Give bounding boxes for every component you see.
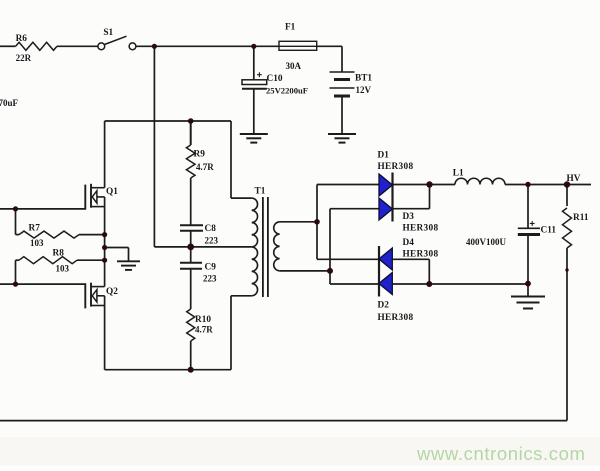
svg-text:R6: R6 xyxy=(16,34,28,44)
svg-text:T1: T1 xyxy=(255,187,266,197)
svg-text:4.7R: 4.7R xyxy=(195,325,213,335)
svg-text:R8: R8 xyxy=(53,249,65,259)
svg-text:R10: R10 xyxy=(195,315,211,325)
svg-text:C8: C8 xyxy=(205,224,217,234)
svg-text:103: 103 xyxy=(30,238,44,248)
svg-text:F1: F1 xyxy=(285,23,296,33)
svg-text:C11: C11 xyxy=(541,226,557,236)
svg-text:103: 103 xyxy=(56,264,70,274)
svg-text:D4: D4 xyxy=(403,238,415,248)
svg-text:223: 223 xyxy=(203,274,217,284)
svg-text:BT1: BT1 xyxy=(355,74,372,84)
svg-text:22R: 22R xyxy=(16,53,32,63)
svg-text:Q2: Q2 xyxy=(106,287,118,297)
svg-text:HV: HV xyxy=(567,174,581,184)
svg-text:270uF: 270uF xyxy=(0,98,19,108)
svg-text:L1: L1 xyxy=(453,169,464,179)
svg-text:C9: C9 xyxy=(205,263,217,273)
svg-text:30A: 30A xyxy=(286,61,302,71)
svg-text:HER308: HER308 xyxy=(378,313,414,323)
svg-text:223: 223 xyxy=(205,236,219,246)
svg-text:400V100U: 400V100U xyxy=(466,237,506,247)
svg-text:www.cntronics.com: www.cntronics.com xyxy=(416,443,586,464)
svg-text:4.7R: 4.7R xyxy=(196,162,214,172)
svg-text:R11: R11 xyxy=(573,213,589,223)
svg-text:R7: R7 xyxy=(29,224,41,234)
svg-text:D1: D1 xyxy=(378,151,390,161)
svg-text:C10: C10 xyxy=(267,74,283,84)
svg-text:HER308: HER308 xyxy=(403,250,439,260)
svg-text:R9: R9 xyxy=(194,150,206,160)
svg-text:12V: 12V xyxy=(356,85,372,95)
svg-text:Q1: Q1 xyxy=(106,187,118,197)
svg-text:HER308: HER308 xyxy=(378,162,414,172)
svg-text:HER308: HER308 xyxy=(403,224,439,234)
svg-text:25V2200uF: 25V2200uF xyxy=(266,86,308,96)
svg-text:D2: D2 xyxy=(378,301,390,311)
svg-text:S1: S1 xyxy=(103,28,113,38)
svg-text:D3: D3 xyxy=(403,212,415,222)
